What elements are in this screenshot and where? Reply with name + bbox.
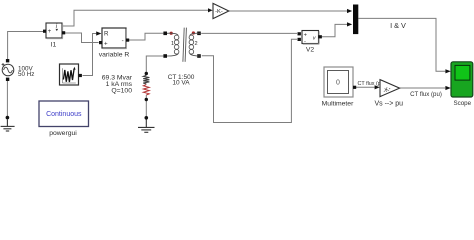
svg-text:+: + bbox=[48, 28, 52, 35]
primary bottom port bbox=[163, 54, 167, 58]
primary top port bbox=[163, 32, 167, 36]
svg-text:I1: I1 bbox=[51, 41, 57, 48]
svg-text:-: - bbox=[304, 39, 306, 45]
svg-text:powergui: powergui bbox=[49, 130, 77, 137]
wire: variable R output to CT primary top port bbox=[129, 33, 163, 40]
svg-text:-K-: -K- bbox=[215, 9, 223, 15]
primary winding bbox=[167, 33, 179, 56]
svg-text:1: 1 bbox=[171, 41, 174, 47]
wire: gain U1 output to mux input 1 bbox=[229, 9, 352, 13]
secondary polarity dot bbox=[192, 31, 195, 34]
svg-text:variable R: variable R bbox=[99, 51, 130, 58]
wire: CT secondary top port to V2 plus bbox=[201, 32, 297, 34]
svg-text:+: + bbox=[104, 41, 108, 48]
svg-text:R: R bbox=[104, 31, 109, 38]
svg-text:I & V: I & V bbox=[390, 21, 406, 30]
multimeter bbox=[322, 67, 357, 108]
signal label CT flux (pu) output bbox=[410, 91, 442, 98]
wire: I1 i-output to gain U1 input bbox=[62, 8, 213, 26]
powergui block bbox=[39, 101, 89, 137]
svg-text:2: 2 bbox=[195, 41, 198, 47]
wire: CT secondary bottom port to V2 minus bbox=[202, 39, 297, 122]
signal source (waveform block) bbox=[60, 64, 82, 85]
secondary top port bbox=[197, 32, 201, 36]
wire: mux output to scope input 1 bbox=[358, 18, 450, 73]
transformer core bbox=[183, 28, 187, 62]
svg-text:10 VA: 10 VA bbox=[172, 80, 190, 87]
node label I & V bbox=[390, 21, 406, 30]
wire: gain U2 output to scope input 2 bbox=[400, 86, 451, 90]
wire: signal source to variable R control input bbox=[83, 31, 102, 75]
svg-text:CT flux (pu): CT flux (pu) bbox=[410, 91, 442, 98]
svg-text:0: 0 bbox=[336, 80, 340, 87]
wire: AC source top to I1 left port bbox=[8, 32, 44, 60]
svg-text:Vs --> pu: Vs --> pu bbox=[374, 100, 403, 107]
svg-text:Q=100: Q=100 bbox=[111, 88, 132, 95]
svg-text:-: - bbox=[122, 37, 124, 44]
svg-text:Continuous: Continuous bbox=[46, 111, 82, 118]
AC voltage source 100V 50Hz bbox=[2, 59, 35, 81]
wire: V2 output to mux input 2 bbox=[322, 22, 352, 37]
svg-text:50 Hz: 50 Hz bbox=[18, 71, 34, 78]
gain U2 (-K-) Vs to pu bbox=[374, 80, 403, 108]
voltage measurement V2 bbox=[298, 31, 322, 54]
current measurement I1 bbox=[43, 23, 65, 48]
wire: AC source bottom to ground G1 bbox=[6, 81, 8, 117]
signal label CT flux (pu) input bbox=[358, 81, 386, 87]
wire: CT primary bottom port to RLC branch top bbox=[146, 56, 163, 72]
svg-text:Multimeter: Multimeter bbox=[322, 101, 354, 108]
ground G2 bbox=[138, 116, 155, 132]
wire: multimeter output to gain U2 input bbox=[356, 85, 380, 89]
svg-text:Scope: Scope bbox=[454, 100, 472, 107]
CT transformer 1:500 bbox=[163, 28, 201, 87]
secondary bottom port bbox=[197, 54, 201, 58]
gain U1 (-K-) bbox=[213, 3, 229, 18]
mux bbox=[353, 5, 358, 35]
wire: I1 minus terminal to variable R plus port bbox=[65, 33, 99, 43]
ground G1 bbox=[1, 116, 15, 131]
variable R block bbox=[99, 28, 130, 58]
RLC branch 69.3 Mvar bbox=[102, 72, 150, 101]
svg-text:V2: V2 bbox=[306, 47, 315, 54]
secondary winding bbox=[189, 33, 201, 56]
wire: RLC branch bottom to ground G2 bbox=[145, 101, 147, 116]
primary polarity dot bbox=[170, 32, 173, 35]
scope bbox=[451, 62, 473, 107]
